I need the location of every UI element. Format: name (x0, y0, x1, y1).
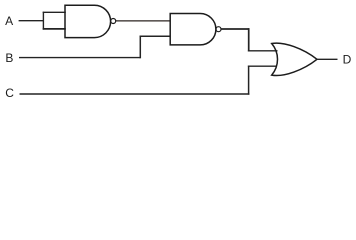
node A branch vertical (42, 12, 44, 30)
svg-text:A: A (5, 14, 13, 28)
NAND gate U2 body (170, 14, 216, 45)
wire A branch to U1 pin 1 (43, 11, 66, 13)
OR gate U3 body (272, 43, 317, 75)
wire B to U2 pin 2 (140, 35, 171, 37)
wire to U3 pin 1 (248, 50, 278, 52)
wire U2 output horizontal (221, 28, 249, 30)
NAND gate U1 body (65, 5, 111, 37)
wire C input (20, 93, 250, 95)
wire B input (19, 57, 140, 59)
wire A input (19, 20, 44, 22)
wire U3 output (317, 58, 338, 60)
wire C elbow vertical (248, 66, 250, 95)
svg-text:B: B (5, 51, 13, 65)
wire U2 output elbow vertical (248, 28, 250, 51)
wire B elbow vertical (139, 36, 141, 59)
svg-text:C: C (5, 86, 14, 100)
wire U1 output to U2 pin 1 (116, 20, 171, 22)
NAND gate U2 output bubble (216, 27, 221, 32)
wire C to U3 pin 2 (248, 65, 277, 67)
NAND gate U1 output bubble (111, 19, 116, 24)
svg-text:D: D (343, 53, 352, 67)
wire A branch to U1 pin 2 (43, 28, 66, 30)
